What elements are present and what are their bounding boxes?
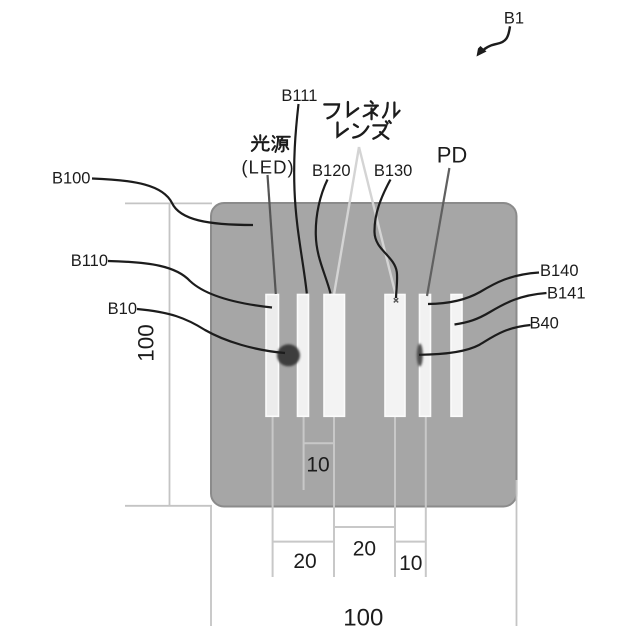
leader 光源(LED) to bar1 top [268, 175, 276, 294]
wire extension line bar5 [425, 398, 427, 416]
svg-text:B111: B111 [281, 87, 317, 105]
leader B111 [294, 104, 307, 294]
leader B40 [419, 325, 531, 355]
fresnel lens B120 (bar3) [324, 295, 345, 417]
ン [353, 125, 368, 138]
光 [252, 135, 269, 151]
svg-text:10: 10 [399, 552, 422, 575]
svg-text:B40: B40 [530, 315, 559, 333]
wire dimension extension: left bottom horizontal [125, 505, 212, 507]
svg-text:10: 10 [306, 454, 329, 477]
svg-text:B10: B10 [108, 300, 137, 318]
lens plate B111 (bar2) [298, 295, 309, 417]
svg-text:B120: B120 [312, 162, 351, 180]
svg-text:PD: PD [437, 143, 468, 168]
wire dimension extension: left vertical [169, 203, 171, 506]
svg-text:(LED): (LED) [241, 157, 294, 178]
wire bottom-100 left vertical [210, 506, 212, 626]
fresnel-lens leader right arm [359, 147, 396, 296]
svg-text:20: 20 [293, 550, 316, 573]
label フレネル (hand-drawn katakana) [324, 101, 399, 119]
fresnel-lens leader left arm [334, 147, 359, 295]
wire dimension extension: left top horizontal [125, 202, 212, 204]
fresnel lens B130 (bar4) [385, 295, 405, 417]
leader PD to bar5 top [427, 168, 449, 296]
wire bottom-100 right vertical [516, 480, 518, 626]
svg-text:B110: B110 [71, 252, 108, 270]
lens plate B141 (bar5) [420, 295, 431, 417]
svg-text:100: 100 [134, 324, 159, 362]
svg-text:B100: B100 [52, 170, 91, 188]
レ [338, 123, 348, 137]
leader B110 [108, 261, 272, 308]
leader B10 [137, 309, 285, 353]
svg-text:20: 20 [353, 538, 376, 561]
leader B130 tip mark [394, 298, 398, 302]
label レンズ (hand-drawn katakana) [338, 121, 391, 139]
wire extension line bar1 [272, 398, 274, 416]
ズ [373, 121, 390, 139]
dimension inner 10 bracket [304, 442, 334, 444]
substrate bar B110 (bar1) [266, 295, 279, 417]
ル [383, 102, 400, 117]
源 [272, 136, 290, 152]
フ [324, 104, 339, 118]
svg-text:B130: B130 [374, 162, 413, 180]
dimension mid-20 bracket [334, 526, 395, 528]
label 光源 (hand-drawn kanji) [252, 135, 290, 152]
svg-text:100: 100 [343, 605, 383, 632]
svg-text:B1: B1 [504, 10, 524, 28]
svg-text:B141: B141 [547, 285, 586, 303]
wire extension line bar3 [333, 398, 335, 416]
leader B100 [92, 179, 253, 226]
leader B140 [428, 273, 539, 305]
dimension right-10 bracket [395, 541, 426, 543]
LED chip B10 (dark blob on bar1) [277, 344, 300, 366]
ネ [364, 101, 378, 119]
label B1 arrow [481, 26, 510, 52]
svg-text:B140: B140 [540, 262, 579, 280]
leader B120 [316, 180, 331, 294]
substrate bar B140 (bar6) [451, 295, 462, 417]
レ [348, 102, 358, 116]
wire extension line bar4 [394, 398, 396, 416]
wire extension line bar2 [303, 398, 305, 416]
dimension left-20 bracket [273, 541, 334, 543]
leader B141 [455, 293, 547, 325]
leader B130 [374, 180, 397, 299]
PD chip B40 (small dark blob on bar5) [417, 344, 423, 367]
node housing B100 (gray rounded square) [211, 203, 517, 507]
